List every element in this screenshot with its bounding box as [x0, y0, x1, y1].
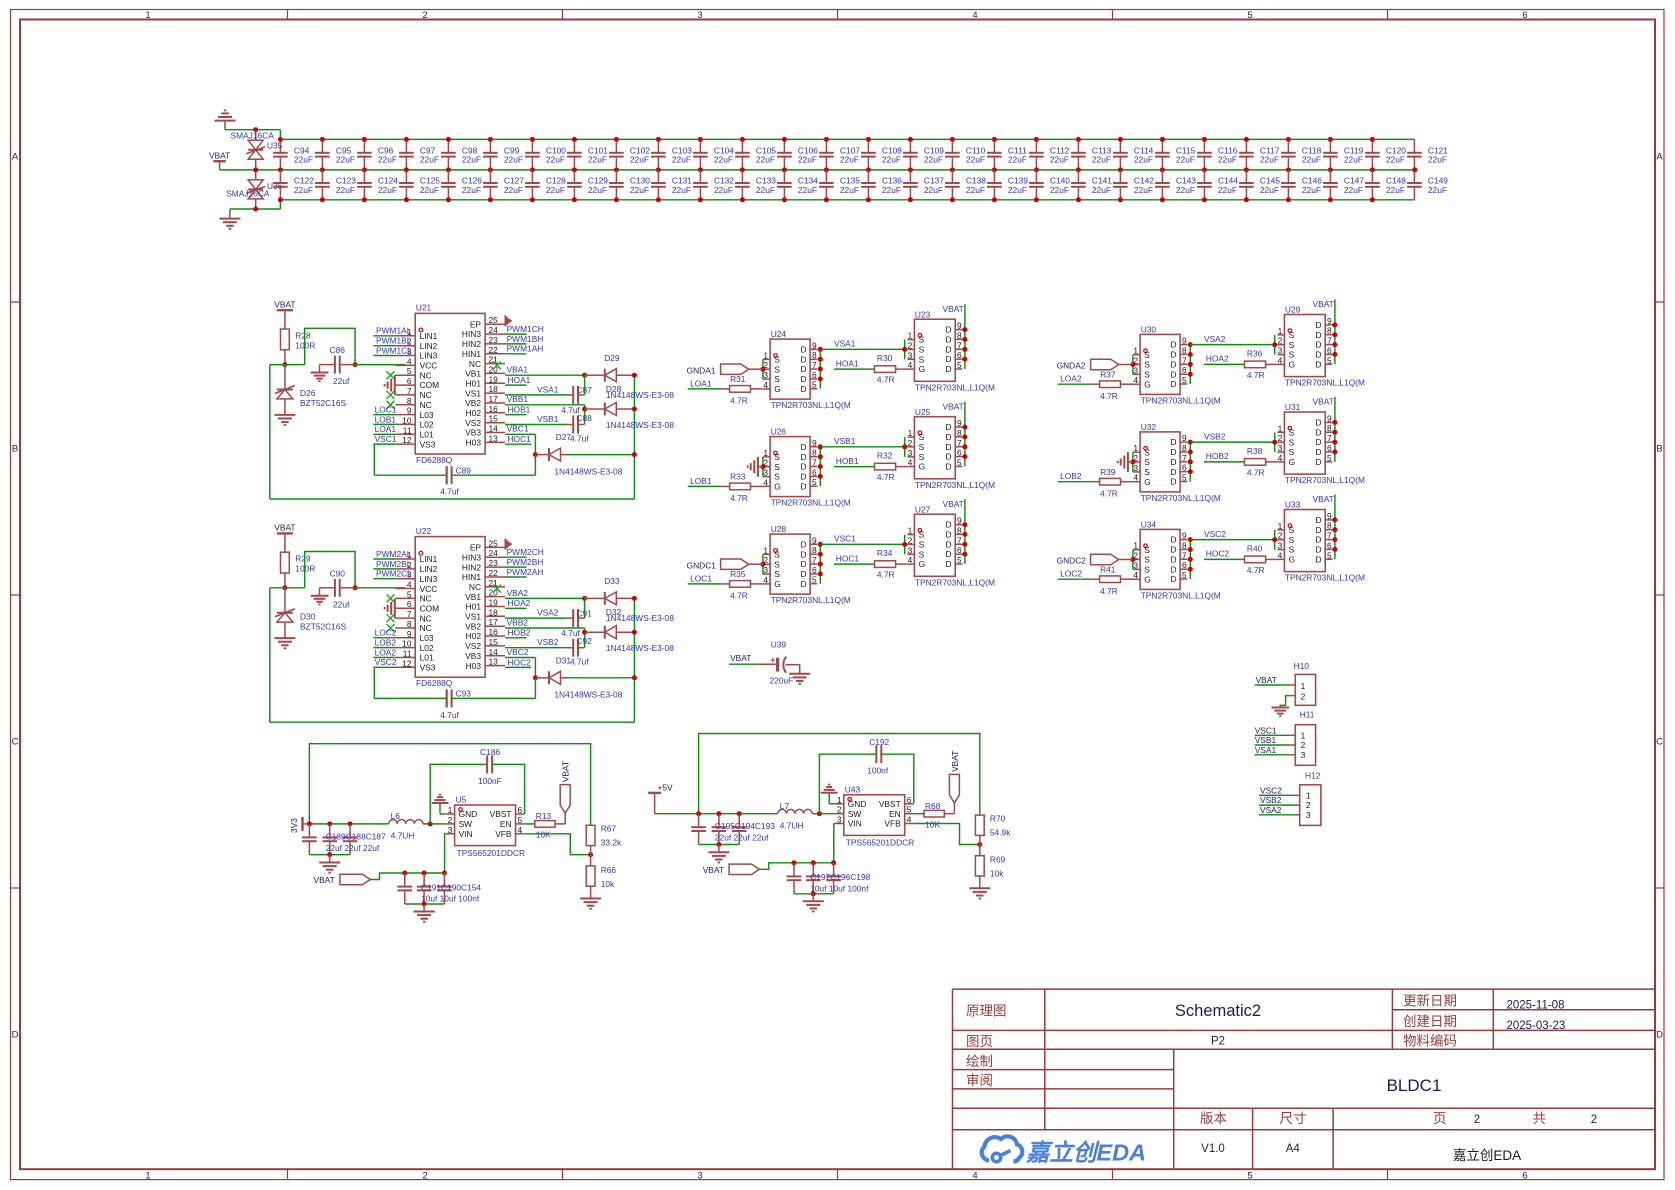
svg-text:D: D [800, 472, 806, 482]
svg-text:D: D [800, 384, 806, 394]
svg-text:22uF: 22uF [1008, 155, 1027, 165]
svg-text:22uF: 22uF [882, 185, 901, 195]
svg-text:22uF: 22uF [630, 155, 649, 165]
net label VBB2 [505, 627, 585, 629]
svg-text:4.7R: 4.7R [730, 591, 748, 601]
svg-text:VSB1: VSB1 [1255, 735, 1277, 745]
svg-text:PWM1BH: PWM1BH [507, 334, 544, 344]
net label HOA2 [1204, 363, 1245, 365]
svg-text:22uF: 22uF [294, 185, 313, 195]
svg-text:6: 6 [1182, 365, 1187, 375]
svg-text:4.7UH: 4.7UH [391, 831, 415, 841]
svg-text:HOA1: HOA1 [836, 358, 859, 368]
svg-text:1: 1 [908, 428, 913, 438]
svg-text:2: 2 [1278, 433, 1283, 443]
svg-text:5: 5 [1327, 453, 1332, 463]
svg-text:22uF: 22uF [504, 155, 523, 165]
svg-text:A: A [1656, 152, 1663, 163]
svg-text:审阅: 审阅 [966, 1073, 993, 1088]
svg-text:22uF: 22uF [336, 185, 355, 195]
svg-text:2025-11-08: 2025-11-08 [1507, 1000, 1565, 1012]
svg-text:4.7R: 4.7R [1247, 370, 1265, 380]
capacitor C126 22uF [447, 170, 449, 183]
svg-text:12: 12 [402, 658, 412, 668]
svg-text:V1.0: V1.0 [1201, 1143, 1225, 1155]
svg-text:LOA1: LOA1 [375, 424, 397, 434]
U24 pin 9 D [810, 348, 817, 350]
U5 pin 6 VBST [516, 813, 525, 815]
U30 pin 4 [1133, 383, 1140, 385]
U28 pin 9 D [810, 543, 817, 545]
capacitor C98 22uF [447, 139, 449, 152]
svg-text:16: 16 [489, 404, 499, 414]
U26 pin 8 D [810, 456, 817, 458]
pin 20 VB1 [485, 372, 505, 374]
svg-text:22uF: 22uF [1008, 185, 1027, 195]
svg-text:4.7uf: 4.7uf [570, 657, 589, 667]
svg-text:PWM1AH: PWM1AH [507, 344, 544, 354]
U32 pin 4 [1133, 481, 1140, 483]
svg-text:S: S [1144, 350, 1150, 360]
svg-text:VB3: VB3 [465, 651, 481, 661]
svg-text:5: 5 [907, 805, 912, 815]
svg-text:11: 11 [403, 425, 412, 435]
U30 pin 3 [1133, 373, 1140, 375]
svg-text:VSC1: VSC1 [834, 534, 856, 544]
svg-text:C191C190C154: C191C190C154 [421, 882, 481, 892]
svg-text:22uF: 22uF [1344, 185, 1363, 195]
net label VSB1 [505, 424, 567, 426]
transistor U28 TPN2R703NL [770, 534, 810, 594]
svg-text:3: 3 [1133, 463, 1138, 473]
svg-text:8: 8 [957, 330, 962, 340]
svg-text:8: 8 [957, 428, 962, 438]
svg-text:9: 9 [1327, 316, 1332, 326]
wire bottom rail [270, 498, 635, 500]
svg-text:9: 9 [957, 321, 962, 331]
resistor R40 4.7R [1245, 556, 1266, 563]
svg-text:4.7R: 4.7R [877, 570, 895, 580]
svg-text:HOB2: HOB2 [1206, 451, 1229, 461]
net label HOB1 [834, 466, 875, 468]
resistor R31 4.7R [721, 388, 730, 390]
svg-text:5: 5 [812, 380, 817, 390]
svg-text:5: 5 [407, 589, 412, 599]
svg-text:8: 8 [812, 545, 817, 555]
svg-text:22uf: 22uf [333, 599, 350, 609]
svg-text:1: 1 [763, 448, 768, 458]
svg-text:VCC: VCC [420, 361, 438, 371]
pin 17 VB2 [485, 625, 505, 627]
H10 pin2 to ground [1290, 695, 1295, 697]
svg-text:7: 7 [1182, 550, 1187, 560]
net label VBB1 [505, 404, 585, 406]
U27 pin 7 D [955, 543, 962, 545]
U23 pin 6 D [955, 358, 962, 360]
U43 pin 5 EN [905, 813, 914, 815]
capacitor C112 22uF [1035, 139, 1037, 152]
svg-text:NC: NC [420, 623, 432, 633]
svg-text:8: 8 [1327, 521, 1332, 531]
svg-text:4: 4 [908, 555, 913, 565]
diode D28 1N4148WS-E3-08 [584, 405, 586, 425]
svg-text:6: 6 [907, 795, 912, 805]
svg-text:22uF: 22uF [756, 185, 775, 195]
capacitor C144 22uF [1203, 170, 1205, 183]
svg-text:19: 19 [489, 598, 499, 608]
svg-text:9: 9 [407, 629, 412, 639]
U23 pin 7 D [955, 348, 962, 350]
svg-text:C197C196C198: C197C196C198 [810, 872, 870, 882]
svg-text:BZT52C16S: BZT52C16S [300, 398, 346, 408]
svg-text:D: D [12, 1030, 19, 1041]
svg-text:1: 1 [763, 545, 768, 555]
svg-text:EN: EN [500, 819, 512, 829]
svg-text:U31: U31 [1285, 402, 1301, 412]
net label LOC1 [688, 583, 721, 585]
svg-text:R70: R70 [990, 813, 1006, 823]
wire vcc loop [270, 587, 305, 589]
capacitor C147 22uF [1329, 170, 1331, 183]
svg-text:6: 6 [1327, 345, 1332, 355]
svg-text:PWM2BH: PWM2BH [507, 557, 544, 567]
svg-text:R68: R68 [925, 801, 941, 811]
svg-text:17: 17 [489, 617, 499, 627]
svg-text:S: S [774, 374, 780, 384]
svg-text:5: 5 [812, 575, 817, 585]
svg-text:5: 5 [1247, 1171, 1252, 1182]
svg-text:1: 1 [1301, 681, 1306, 691]
svg-text:GND: GND [848, 799, 867, 809]
svg-text:VBA1: VBA1 [507, 365, 529, 375]
svg-text:PWM2BL: PWM2BL [376, 559, 412, 569]
svg-text:H03: H03 [466, 438, 482, 448]
svg-text:1: 1 [1278, 521, 1283, 531]
U31 pin 8 D [1325, 431, 1332, 433]
capacitor C137 22uF [909, 170, 911, 183]
svg-text:D: D [945, 559, 951, 569]
pin 5 NC [395, 597, 415, 599]
svg-text:R32: R32 [877, 451, 893, 461]
U29 pin 7 D [1325, 344, 1332, 346]
svg-text:GND: GND [459, 809, 478, 819]
net label HOC1 [834, 563, 875, 565]
capacitor C130 22uF [615, 170, 617, 183]
net label PWM1AL [373, 335, 395, 337]
svg-text:GNDA1: GNDA1 [687, 365, 716, 375]
svg-text:R28: R28 [295, 330, 311, 340]
svg-text:8: 8 [1182, 346, 1187, 356]
svg-text:VBAT: VBAT [1256, 675, 1277, 685]
svg-text:SMAJ16CA: SMAJ16CA [226, 189, 270, 199]
U30 pin 1 [1133, 354, 1140, 356]
svg-text:TPN2R703NL,L1Q(M: TPN2R703NL,L1Q(M [1141, 396, 1221, 406]
svg-text:100nF: 100nF [478, 776, 502, 786]
svg-text:16: 16 [489, 627, 499, 637]
svg-text:COM: COM [420, 604, 440, 614]
svg-text:R36: R36 [1247, 348, 1263, 358]
capacitor C145 22uF [1245, 170, 1247, 183]
svg-text:SMAJ16CA: SMAJ16CA [231, 131, 275, 141]
svg-text:4: 4 [1133, 375, 1138, 385]
pin 8 NC [395, 627, 415, 629]
svg-text:D: D [1315, 359, 1321, 369]
capacitor C91 4.7uf [567, 617, 574, 619]
svg-text:U28: U28 [771, 524, 787, 534]
svg-text:D: D [1315, 340, 1321, 350]
svg-text:22uF: 22uF [1092, 155, 1111, 165]
svg-text:VIN: VIN [848, 819, 862, 829]
capacitor C90 22uf [320, 587, 335, 589]
U30 pin 2 [1133, 364, 1140, 366]
svg-text:22uF: 22uF [504, 185, 523, 195]
pin 24 HIN3 [485, 556, 505, 558]
resistor R33 4.7R [721, 485, 730, 487]
svg-text:1N4148WS-E3-08: 1N4148WS-E3-08 [606, 420, 674, 430]
svg-text:HIN1: HIN1 [462, 349, 481, 359]
transistor U34 TPN2R703NL [1140, 529, 1180, 589]
SW row wire [699, 813, 778, 815]
capacitor C101 22uF [573, 139, 575, 152]
svg-text:VS3: VS3 [420, 439, 436, 449]
pin 13 H03 [485, 665, 505, 667]
svg-text:VBAT: VBAT [1313, 397, 1334, 407]
svg-text:LOB2: LOB2 [375, 638, 397, 648]
pin 12 VS3 [395, 666, 415, 668]
svg-text:R13: R13 [536, 811, 552, 821]
svg-text:7: 7 [1182, 453, 1187, 463]
svg-text:G: G [919, 559, 926, 569]
svg-text:VBC2: VBC2 [507, 647, 529, 657]
ground top-left [215, 120, 236, 122]
net label VSA2 [505, 617, 567, 619]
U23 pin 5 D [955, 368, 962, 370]
svg-text:A: A [12, 152, 19, 163]
U31 source bracket [1274, 432, 1276, 452]
net label VBA1 [505, 374, 585, 376]
svg-text:D: D [945, 325, 951, 335]
svg-text:HIN1: HIN1 [462, 572, 481, 582]
net label VSB2 [1190, 441, 1274, 443]
U24 pin 8 D [810, 358, 817, 360]
svg-text:R69: R69 [990, 855, 1006, 865]
svg-text:LIN1: LIN1 [420, 554, 438, 564]
resistor R37 4.7R [1091, 383, 1100, 385]
svg-text:13: 13 [489, 657, 499, 667]
svg-text:22uF: 22uF [1260, 185, 1279, 195]
svg-text:2: 2 [908, 535, 913, 545]
U30 pin 7 D [1180, 363, 1187, 365]
svg-text:2: 2 [908, 340, 913, 350]
inductor L6 4.7UH [389, 820, 423, 824]
svg-text:22uF: 22uF [1092, 185, 1111, 195]
capacitor C127 22uF [489, 170, 491, 183]
svg-text:7: 7 [957, 535, 962, 545]
svg-text:S: S [774, 559, 780, 569]
svg-text:2: 2 [1301, 740, 1306, 750]
svg-text:22uF: 22uF [798, 185, 817, 195]
svg-text:VB2: VB2 [465, 621, 481, 631]
bottom wire to ground [230, 208, 281, 210]
GND top bus [280, 138, 1414, 140]
svg-text:L03: L03 [420, 633, 434, 643]
svg-text:VBAT: VBAT [561, 761, 571, 782]
resistor R29 100R [281, 552, 290, 573]
U25 pin 4 [907, 466, 914, 468]
svg-text:4: 4 [518, 825, 523, 835]
svg-text:图页: 图页 [966, 1034, 993, 1049]
pin 14 VB3 [485, 432, 505, 434]
svg-text:D: D [1315, 447, 1321, 457]
svg-text:22: 22 [489, 568, 499, 578]
svg-text:L02: L02 [420, 643, 434, 653]
U31 pin 5 D [1325, 461, 1332, 463]
svg-text:2: 2 [1278, 336, 1283, 346]
U26 source bracket [762, 457, 764, 477]
net label HOB2 [1204, 461, 1245, 463]
svg-text:EP: EP [470, 543, 482, 553]
net label LOB2 [373, 647, 395, 649]
svg-text:2: 2 [908, 438, 913, 448]
svg-text:25: 25 [489, 538, 499, 548]
capacitor C95 22uF [321, 139, 323, 152]
svg-text:1: 1 [908, 526, 913, 536]
svg-text:H01: H01 [466, 379, 482, 389]
svg-text:3: 3 [1306, 810, 1311, 820]
capacitor C131 22uF [657, 170, 659, 183]
svg-text:D: D [1315, 437, 1321, 447]
U32 pin 1 [1133, 451, 1140, 453]
svg-text:PWM1BL: PWM1BL [376, 336, 412, 346]
svg-text:PWM1CH: PWM1CH [507, 324, 544, 334]
U34 pin 6 D [1180, 568, 1187, 570]
resistor R36 4.7R [1245, 361, 1266, 368]
svg-text:S: S [919, 452, 925, 462]
svg-text:1N4148WS-E3-08: 1N4148WS-E3-08 [554, 466, 622, 476]
svg-text:22uF: 22uF [1260, 155, 1279, 165]
svg-text:VSA2: VSA2 [1204, 334, 1226, 344]
svg-text:D: D [1170, 477, 1176, 487]
svg-text:TPN2R703NL,L1Q(M: TPN2R703NL,L1Q(M [1285, 475, 1365, 485]
svg-text:10K: 10K [536, 830, 551, 840]
svg-text:1: 1 [1133, 346, 1138, 356]
svg-text:S: S [919, 549, 925, 559]
svg-text:D27: D27 [556, 432, 572, 442]
svg-text:6: 6 [812, 565, 817, 575]
U28 drain bracket [819, 544, 821, 583]
svg-text:LIN3: LIN3 [420, 351, 438, 361]
svg-text:D: D [945, 442, 951, 452]
svg-text:R29: R29 [295, 554, 311, 564]
svg-text:22uF: 22uF [1050, 155, 1069, 165]
svg-text:D: D [1315, 545, 1321, 555]
U29 pin 6 D [1325, 353, 1332, 355]
svg-text:1: 1 [448, 805, 453, 815]
svg-text:PWM2CH: PWM2CH [507, 547, 544, 557]
U23 pin 3 [907, 358, 914, 360]
svg-text:VS2: VS2 [465, 418, 481, 428]
svg-text:10: 10 [402, 639, 412, 649]
U34 source bracket [1132, 550, 1134, 570]
svg-text:R34: R34 [877, 548, 893, 558]
svg-text:HOA2: HOA2 [1206, 354, 1229, 364]
svg-text:7: 7 [812, 555, 817, 565]
svg-text:4: 4 [763, 477, 768, 487]
svg-text:22uF: 22uF [924, 185, 943, 195]
svg-text:创建日期: 创建日期 [1403, 1014, 1457, 1029]
net label VSB2 [505, 647, 567, 649]
svg-text:VS2: VS2 [465, 641, 481, 651]
svg-text:PWM2CL: PWM2CL [376, 569, 412, 579]
IC U5 TPS565201DDCR [455, 805, 516, 846]
svg-text:GNDC1: GNDC1 [687, 560, 717, 570]
svg-text:D: D [1170, 340, 1176, 350]
svg-text:EP: EP [470, 319, 482, 329]
transistor U30 TPN2R703NL [1140, 334, 1180, 394]
resistor R68 10K (EN) [914, 813, 924, 815]
svg-text:22uF: 22uF [714, 155, 733, 165]
svg-text:D: D [1170, 437, 1176, 447]
svg-text:1N4148WS-E3-08: 1N4148WS-E3-08 [606, 643, 674, 653]
TVS diode U35 SMAJ16CA [255, 130, 257, 141]
U23 pin 8 D [955, 338, 962, 340]
svg-text:S: S [774, 355, 780, 365]
svg-text:D: D [800, 539, 806, 549]
svg-text:22uF: 22uF [1176, 155, 1195, 165]
pin 1 LIN1 [395, 335, 415, 337]
svg-text:3: 3 [1278, 443, 1283, 453]
U29 pin 8 D [1325, 334, 1332, 336]
svg-text:VBAT: VBAT [943, 401, 964, 411]
U32 pin 5 D [1180, 481, 1187, 483]
svg-text:4: 4 [407, 356, 412, 366]
resistor R39 4.7R [1091, 481, 1100, 483]
svg-text:4.7uf: 4.7uf [440, 487, 459, 497]
U33 source bracket [1274, 530, 1276, 550]
svg-text:版本: 版本 [1200, 1111, 1228, 1126]
ground below cap [319, 365, 321, 373]
VFB wire [914, 824, 980, 845]
svg-text:D: D [945, 539, 951, 549]
svg-text:TPN2R703NL,L1Q(M: TPN2R703NL,L1Q(M [915, 577, 995, 587]
svg-text:TPN2R703NL,L1Q(M: TPN2R703NL,L1Q(M [1141, 591, 1221, 601]
port GNDC2 [1091, 554, 1119, 564]
net label LOC2 [373, 637, 395, 639]
input caps C191C190C154 [404, 873, 406, 887]
svg-text:7: 7 [1327, 531, 1332, 541]
pin 23 HIN2 [485, 566, 505, 568]
svg-text:3: 3 [1133, 560, 1138, 570]
pin 4 VCC [395, 588, 415, 590]
U31 pin 9 D [1325, 421, 1332, 423]
SW row wire [309, 823, 388, 825]
svg-text:C189C188C187: C189C188C187 [326, 831, 386, 841]
svg-text:5: 5 [1327, 550, 1332, 560]
pin 16 H02 [485, 412, 505, 414]
svg-text:S: S [1289, 428, 1295, 438]
net label VSA1 [505, 394, 567, 396]
svg-text:NC: NC [420, 400, 432, 410]
svg-text:9: 9 [1182, 531, 1187, 541]
svg-text:C92: C92 [576, 636, 592, 646]
svg-text:22uF: 22uF [378, 155, 397, 165]
svg-text:2: 2 [1278, 531, 1283, 541]
U31 pin 1 [1277, 431, 1284, 433]
net label PWM2BH [505, 566, 527, 568]
U43 pin 1 GND [834, 803, 844, 805]
svg-text:R66: R66 [601, 865, 617, 875]
svg-text:4: 4 [972, 10, 977, 21]
